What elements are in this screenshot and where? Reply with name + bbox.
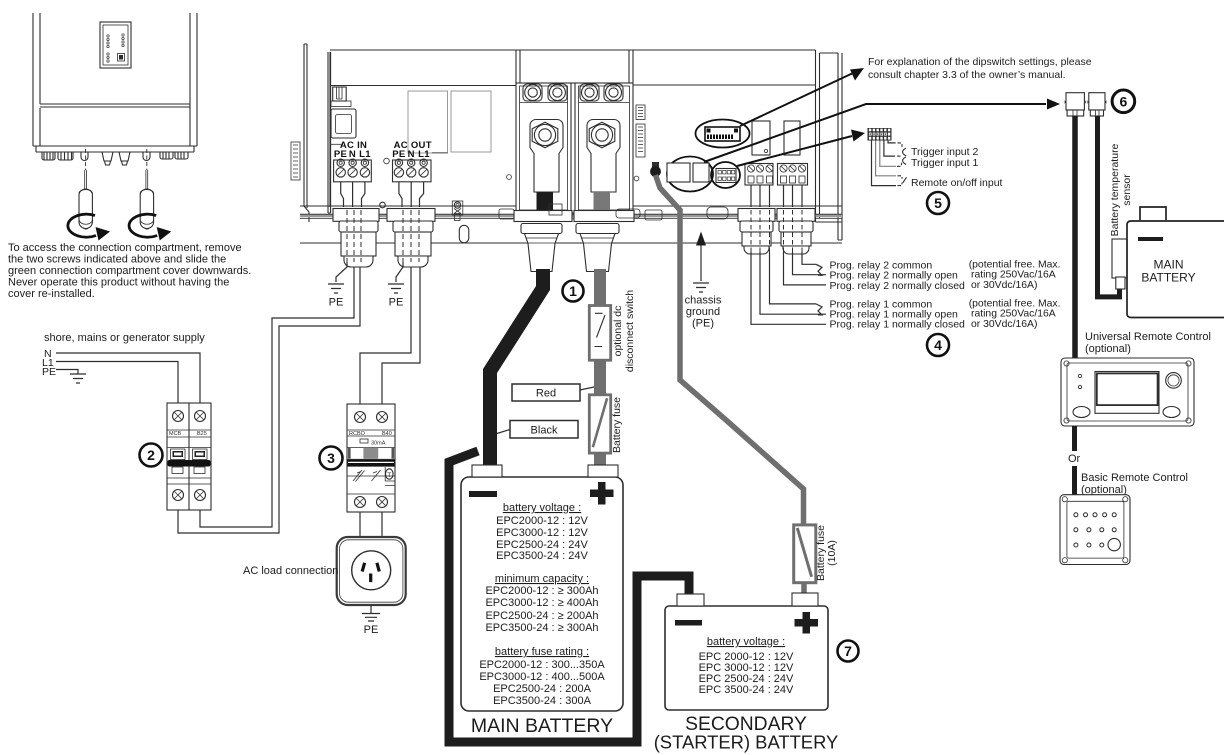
- dashed guide line screw 2: [146, 149, 148, 170]
- svg-text:4: 4: [934, 337, 942, 353]
- svg-text:3: 3: [327, 450, 335, 466]
- secondary battery minus post: [677, 594, 704, 606]
- fuse holder left: [667, 163, 690, 182]
- dipswitch block: [705, 127, 740, 141]
- svg-text:Battery fuse: Battery fuse: [611, 397, 623, 453]
- socket slots: [362, 563, 364, 572]
- breaker top screws: [173, 411, 184, 422]
- wires AC IN block to gland: [341, 182, 365, 207]
- main battery top tab: [1140, 207, 1166, 220]
- small circle on face: [507, 175, 512, 180]
- svg-text:EPC2000-12 : 12V: EPC2000-12 : 12V: [496, 515, 588, 527]
- temp sensor cable: [1098, 116, 1120, 297]
- face top line right: [633, 84, 815, 86]
- RJ connector 2: [1087, 93, 1107, 116]
- bottom cable glands right: [160, 152, 173, 159]
- gray battery cable (plus) upper segment: [594, 269, 606, 307]
- PE wire + ground below AC OUT gland: [396, 262, 403, 282]
- svg-text:EPC2000-12 : 300...350A: EPC2000-12 : 300...350A: [479, 659, 605, 671]
- wire RCBO to socket right: [381, 512, 383, 537]
- relay terminal block 1: [745, 164, 773, 186]
- gray cable fuse2 to secondary battery plus: [801, 582, 807, 594]
- small io terminal block: [716, 169, 736, 183]
- small circle right area: [634, 176, 639, 181]
- white rect component D: [784, 121, 800, 155]
- wire PE supply stub: [56, 370, 78, 375]
- bottom cable glands left: [42, 152, 55, 160]
- RCBO breaker 3: [347, 404, 395, 512]
- svg-text:To access the connection compa: To access the connection compartment, re…: [8, 242, 242, 254]
- battery fuse 1: [589, 395, 610, 453]
- cable below universal remote: [1072, 426, 1077, 451]
- svg-text:or 30Vdc/16A): or 30Vdc/16A): [971, 280, 1037, 291]
- black cable stub left lug: [537, 192, 554, 211]
- svg-text:7: 7: [844, 643, 852, 659]
- svg-text:2: 2: [147, 447, 155, 463]
- wire L1 supply to breaker: [56, 362, 178, 404]
- svg-text:Black: Black: [531, 425, 558, 437]
- svg-text:(optional): (optional): [1085, 343, 1131, 355]
- svg-text:Universal Remote Control: Universal Remote Control: [1085, 331, 1211, 343]
- rcbo top screws: [355, 412, 366, 423]
- svg-text:AC load connection: AC load connection: [243, 565, 338, 577]
- chassis ground arrow: [700, 244, 702, 281]
- AC OUT cable gland: [387, 209, 435, 268]
- svg-text:EPC3000-12 : ≥ 400Ah: EPC3000-12 : ≥ 400Ah: [485, 597, 598, 609]
- rcbo tie bar: [348, 460, 395, 467]
- main battery minus bar: [1138, 237, 1163, 241]
- svg-text:chassis: chassis: [685, 295, 722, 307]
- unit left wall panel: [304, 44, 331, 222]
- svg-text:Red: Red: [536, 388, 556, 400]
- svg-text:EPC2500-24 : 200A: EPC2500-24 : 200A: [493, 683, 592, 695]
- inverter front housing: [33, 13, 197, 146]
- wire breaker2 left pole to AC IN L1: [178, 267, 360, 533]
- svg-text:(PE): (PE): [692, 318, 714, 330]
- battery temperature sensor: [1112, 239, 1127, 278]
- wire N supply to breaker: [56, 353, 200, 403]
- svg-text:N: N: [408, 149, 415, 160]
- svg-text:green connection compartment c: green connection compartment cover downw…: [8, 265, 251, 277]
- number badge 4: [927, 334, 949, 356]
- svg-text:6: 6: [1120, 93, 1128, 109]
- svg-text:EPC3500-24 : 24V: EPC3500-24 : 24V: [496, 550, 588, 562]
- svg-text:PE: PE: [389, 297, 404, 309]
- secondary battery plus symbol: [795, 612, 819, 634]
- number badge 1: [563, 281, 584, 302]
- basic remote control panel: [1060, 495, 1130, 565]
- svg-text:5: 5: [934, 195, 942, 211]
- svg-text:EPC2000-12 : ≥ 300Ah: EPC2000-12 : ≥ 300Ah: [485, 585, 598, 597]
- AC IN cable gland: [333, 209, 379, 268]
- black battery cable (minus) zigzag: [490, 269, 543, 469]
- tie bar: [168, 460, 211, 467]
- AC OUT terminal block: [393, 159, 432, 182]
- pin header right of module A: [636, 105, 645, 120]
- secondary battery plus post: [792, 593, 818, 606]
- screw hole clamp right: [143, 152, 150, 161]
- face bottom / flange strip: [300, 205, 842, 207]
- fuse element top-left of face: [333, 87, 347, 101]
- pole windows: [172, 467, 183, 474]
- svg-text:EPC3000-12 : 400...500A: EPC3000-12 : 400...500A: [479, 671, 605, 683]
- svg-text:ground: ground: [686, 306, 720, 318]
- unit top edge: [330, 49, 816, 51]
- svg-text:optional dc: optional dc: [612, 306, 624, 357]
- socket PE ground: [362, 605, 380, 621]
- svg-text:battery fuse rating :: battery fuse rating :: [495, 646, 589, 658]
- trigger wires: [872, 141, 897, 186]
- svg-text:battery voltage :: battery voltage :: [707, 636, 785, 648]
- pin header right of module B: [636, 124, 645, 157]
- ground symbol supply: [70, 374, 86, 383]
- relay gland 2: [777, 209, 815, 255]
- relay wire hooks: [816, 264, 826, 285]
- wire RCBO to socket left: [359, 512, 361, 537]
- right lug: [587, 120, 620, 193]
- curly joins: [903, 148, 907, 183]
- main battery minus post: [472, 465, 502, 477]
- svg-text:B25: B25: [197, 431, 207, 437]
- arrow 3 io terminal to trigger block: [737, 136, 852, 166]
- toggles: [167, 447, 211, 449]
- gray cable fuse to battery plus: [594, 452, 606, 468]
- screw 2 shaft: [146, 170, 148, 189]
- module base plates: [514, 211, 572, 222]
- rcbo toggle: [347, 448, 395, 460]
- svg-text:or 30Vdc/16A): or 30Vdc/16A): [971, 319, 1037, 330]
- main battery plus symbol: [590, 482, 614, 505]
- trigger terminal block: [868, 128, 892, 141]
- right battery boot: [576, 224, 619, 272]
- chassis wire (gray) from stud: [656, 175, 804, 526]
- battery fuse 2 (10A): [794, 525, 816, 583]
- svg-text:Remote on/off input: Remote on/off input: [911, 177, 1003, 189]
- rcbo bottom screws: [355, 497, 366, 508]
- Black label box: [510, 421, 578, 439]
- small circle near AC OUT: [384, 158, 390, 164]
- svg-text:PE: PE: [364, 624, 379, 636]
- screw 2 body: [140, 189, 153, 229]
- svg-text:For explanation of the dipswit: For explanation of the dipswitch setting…: [868, 56, 1092, 68]
- svg-text:shore, mains or generator supp: shore, mains or generator supply: [44, 332, 205, 344]
- svg-text:PE: PE: [329, 297, 344, 309]
- svg-text:1: 1: [569, 283, 577, 299]
- battery terminal module: [516, 50, 633, 213]
- svg-text:the two screws indicated above: the two screws indicated above and slide…: [8, 254, 226, 266]
- middle strain reliefs: [102, 152, 113, 165]
- rcbo test area: [353, 470, 381, 482]
- number badge 6: [1112, 90, 1135, 113]
- svg-text:EPC 3500-24 : 24V: EPC 3500-24 : 24V: [699, 684, 794, 696]
- svg-text:PE: PE: [392, 149, 405, 160]
- svg-text:T: T: [387, 472, 391, 479]
- svg-text:disconnect switch: disconnect switch: [624, 290, 636, 372]
- svg-text:BATTERY: BATTERY: [1141, 271, 1195, 285]
- number badge 2: [140, 444, 163, 467]
- svg-text:MCB: MCB: [169, 431, 182, 437]
- svg-text:MAIN: MAIN: [1154, 257, 1184, 271]
- arrow 1 dipswitch to note: [740, 74, 852, 127]
- svg-text:N: N: [349, 149, 356, 160]
- svg-text:PE: PE: [334, 149, 347, 160]
- gray cable stub right lug: [594, 192, 611, 211]
- svg-text:30mA: 30mA: [371, 441, 386, 447]
- relay wires below glands: [802, 252, 816, 264]
- optional dc disconnect switch: [589, 306, 610, 361]
- AC IN terminal block: [334, 159, 372, 182]
- panel LEDs right column: [122, 34, 124, 36]
- unit right wall: [816, 50, 843, 240]
- svg-text:(10A): (10A): [826, 540, 838, 566]
- dashed guide line screw 1: [85, 149, 87, 170]
- svg-text:(STARTER) BATTERY: (STARTER) BATTERY: [654, 732, 839, 753]
- svg-text:Battery temperature: Battery temperature: [1109, 143, 1121, 236]
- svg-text:Never operate this product wit: Never operate this product without havin…: [8, 277, 229, 289]
- comb connector left of unit: [291, 142, 300, 180]
- svg-text:L1: L1: [359, 149, 371, 160]
- fuse holders ellipse: [667, 157, 713, 192]
- svg-text:Basic Remote Control: Basic Remote Control: [1081, 472, 1188, 484]
- AC IN labels: [330, 143, 343, 145]
- screw hole clamp left: [81, 152, 88, 161]
- oval slot in strip: [459, 225, 469, 243]
- relay gland 1: [738, 209, 775, 255]
- number badge 7: [838, 641, 859, 662]
- svg-text:EPC3500-24 : 300A: EPC3500-24 : 300A: [493, 695, 592, 707]
- tall rect component A: [408, 91, 448, 153]
- small box left on face: [331, 109, 356, 138]
- right lug hex nut: [589, 122, 615, 148]
- AC load socket: [337, 537, 406, 605]
- number badge 3: [320, 447, 343, 470]
- left lug: [530, 120, 563, 193]
- gray cable between switch and fuse: [594, 359, 606, 396]
- small clamp on strip: [452, 201, 463, 215]
- main battery negative loop wire to secondary battery: [449, 451, 689, 742]
- svg-text:EPC3000-12 : 12V: EPC3000-12 : 12V: [496, 527, 588, 539]
- wire AC OUT L1 to RCBO: [382, 267, 420, 404]
- main battery minus symbol: [469, 491, 497, 497]
- remote control cable: [1072, 116, 1078, 358]
- secondary battery minus symbol: [675, 620, 702, 626]
- wire breaker2 right pole to AC IN N: [200, 267, 354, 527]
- svg-text:B40: B40: [382, 431, 392, 437]
- left lug hex nut: [532, 122, 558, 148]
- screw hole in strip: [380, 202, 386, 208]
- svg-text:Trigger input 1: Trigger input 1: [911, 157, 978, 169]
- screw 1 body: [79, 189, 92, 229]
- svg-text:EPC2500-24 : ≥ 200Ah: EPC2500-24 : ≥ 200Ah: [485, 610, 598, 622]
- svg-text:consult chapter 3.3 of the own: consult chapter 3.3 of the owner’s manua…: [868, 69, 1065, 81]
- wires AC OUT block to gland: [399, 182, 424, 207]
- panel LEDs left column: [107, 34, 124, 62]
- breaker bottom screws: [173, 490, 184, 501]
- fuse holder right: [693, 163, 709, 182]
- rotation arrow screw 2: [129, 214, 157, 237]
- cable above basic remote: [1072, 466, 1077, 495]
- svg-text:PE: PE: [42, 366, 56, 378]
- RJ connector 1: [1064, 93, 1086, 116]
- universal remote control panel: [1061, 358, 1194, 426]
- Red label box: [512, 384, 580, 401]
- svg-text:battery voltage :: battery voltage :: [503, 502, 581, 514]
- tall rect component B: [451, 91, 491, 152]
- chassis stud: [652, 162, 659, 168]
- svg-text:MAIN BATTERY: MAIN BATTERY: [471, 715, 613, 737]
- dipswitch ellipse: [696, 120, 750, 148]
- relay terminal block 2: [778, 164, 808, 186]
- PE wire + ground below AC IN gland: [336, 262, 347, 282]
- svg-text:EPC3500-24 : ≥ 300Ah: EPC3500-24 : ≥ 300Ah: [485, 622, 598, 634]
- circuit breaker MCB 2: [167, 403, 211, 510]
- arrow 2 fuse holders to connectors: [704, 104, 1046, 162]
- main battery plus post: [588, 465, 618, 477]
- control panel: [100, 22, 131, 68]
- panel pushbutton: [118, 54, 125, 62]
- white rect component C: [752, 121, 770, 155]
- left battery boot: [521, 224, 562, 272]
- wire AC OUT N to RCBO: [360, 267, 411, 404]
- secondary battery box: [665, 606, 828, 710]
- svg-text:rating 250Vac/16A: rating 250Vac/16A: [971, 270, 1056, 281]
- svg-text:Prog. relay 2 normally closed: Prog. relay 2 normally closed: [830, 280, 966, 292]
- main battery box: [461, 477, 623, 711]
- strip tabs: [549, 204, 562, 215]
- svg-text:minimum capacity :: minimum capacity :: [495, 573, 589, 585]
- screw 1 shaft: [85, 170, 87, 189]
- svg-text:Prog. relay 1 normally closed: Prog. relay 1 normally closed: [830, 319, 966, 331]
- svg-text:L1: L1: [418, 149, 430, 160]
- wires relay blocks to glands: [751, 185, 802, 207]
- dashed hooks trigger inputs: [897, 143, 902, 186]
- number badge 5: [927, 192, 949, 214]
- main battery (right) box: [1127, 221, 1224, 318]
- bolt heads top: [523, 84, 623, 101]
- face top line left: [330, 85, 516, 87]
- svg-text:sensor: sensor: [1121, 174, 1133, 206]
- rotation arrow screw 1: [68, 214, 96, 237]
- svg-text:cover re-installed.: cover re-installed.: [8, 288, 95, 300]
- svg-text:Or: Or: [1068, 453, 1081, 465]
- svg-text:RCBO: RCBO: [349, 431, 366, 437]
- io terminal ellipse: [711, 162, 740, 188]
